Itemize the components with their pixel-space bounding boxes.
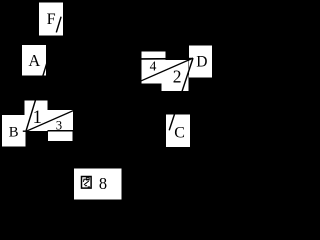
svg-text:2: 2 [173,67,182,87]
svg-text:1: 1 [33,108,42,128]
svg-text:A: A [28,51,40,70]
svg-text:D: D [196,53,207,70]
svg-text:C: C [174,125,185,142]
svg-text:F: F [47,10,56,28]
svg-text:8: 8 [99,174,107,193]
svg-text:4: 4 [150,58,157,73]
svg-text:3: 3 [56,119,62,133]
svg-text:B: B [9,125,19,141]
